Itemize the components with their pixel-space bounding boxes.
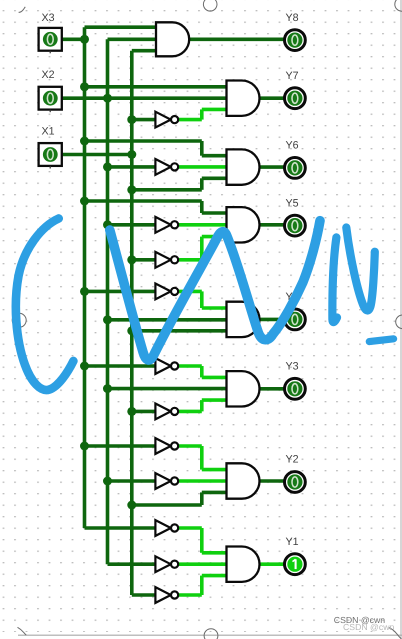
wire N1 output bbox=[178, 118, 201, 122]
wire X3 bus to inverter N8 bbox=[85, 444, 156, 448]
wire G1 output to Y1 bbox=[260, 562, 284, 566]
wire jog up to G3 bottom input bbox=[200, 400, 204, 411]
wire to G2 top input bbox=[202, 468, 227, 472]
wire X2 bus to inverter N11 bbox=[108, 562, 156, 566]
wire G8 output to Y8 bbox=[189, 37, 283, 41]
svg-text:Y8: Y8 bbox=[286, 12, 299, 24]
wire G3 output to Y3 bbox=[260, 387, 284, 391]
inverter N3 bbox=[155, 217, 178, 233]
wire X2 bus to inverter N3 bbox=[108, 223, 156, 227]
wire X3 bus to inverter N5 bbox=[85, 290, 156, 294]
output LED Y7 bbox=[285, 88, 306, 109]
wire jog down to G5 top input bbox=[200, 201, 204, 213]
output LED Y6 bbox=[285, 158, 306, 179]
wire X1 to G4 bottom input bbox=[132, 329, 227, 333]
wire jog down to G3 top input bbox=[200, 366, 204, 377]
junction X2 bus to G4 bbox=[103, 315, 112, 324]
junction X2 bus to N9 bbox=[103, 477, 112, 486]
wire X2 bus vertical bbox=[106, 39, 110, 564]
wire X3 branch for G6 bbox=[85, 139, 202, 143]
junction X1 pin / bus bbox=[127, 150, 136, 159]
wire X2 bus to inverter N9 bbox=[108, 479, 156, 483]
junction X1 bus to N7 bbox=[127, 407, 136, 416]
wire to G6 bottom input bbox=[202, 177, 227, 181]
and-gate G8 (Y8) bbox=[156, 22, 189, 56]
canvas right border bbox=[400, 0, 402, 639]
input pin X3 bbox=[39, 28, 62, 53]
wire X2 to G4 middle input bbox=[108, 318, 227, 322]
junction X1 bus to N1 bbox=[127, 115, 136, 124]
junction X2 bus to N3 bbox=[103, 220, 112, 229]
wire to G2 bottom input bbox=[202, 491, 227, 495]
wire N6 output bbox=[178, 364, 201, 368]
svg-text:Y1: Y1 bbox=[286, 536, 299, 548]
wire N11 output to G1 middle input bbox=[178, 562, 226, 566]
wire X3 pin to bus bbox=[60, 37, 85, 41]
wire X1 to G8 bottom input bbox=[132, 49, 156, 53]
junction X3 pin / bus bbox=[80, 35, 89, 44]
output LED Y4 bbox=[285, 309, 306, 330]
wire to G3 bottom input bbox=[202, 398, 227, 402]
wire jog up to G7 bottom input bbox=[200, 109, 204, 119]
wire to G5 top input bbox=[202, 211, 227, 215]
svg-text:Y2: Y2 bbox=[286, 454, 299, 466]
wire X1 bus to inverter N1 bbox=[132, 118, 156, 122]
junction X1 bus to G4 bbox=[127, 326, 136, 335]
inverter N6 bbox=[155, 358, 178, 374]
wire N4 output bbox=[178, 258, 201, 262]
and-gate G3 (Y3) bbox=[227, 371, 260, 406]
junction X3 bus to G5 bbox=[80, 197, 89, 206]
wire jog down to G2 top input bbox=[200, 446, 204, 470]
wire X1 bus to inverter N12 bbox=[132, 593, 156, 597]
output LED Y1 bbox=[285, 554, 306, 575]
junction X3 bus to N6 bbox=[80, 362, 89, 371]
selection handle right-middle bbox=[396, 315, 402, 329]
and-gate G2 (Y2) bbox=[227, 463, 260, 498]
inverter N10 bbox=[155, 520, 178, 536]
output LED Y5 bbox=[285, 215, 306, 236]
wire X1 branch for G2 bbox=[132, 503, 202, 507]
inverter N11 bbox=[155, 556, 178, 572]
junction X3 bus to G7 bbox=[80, 82, 89, 91]
wire X3 to G8 top input bbox=[85, 25, 157, 29]
wire N12 output bbox=[178, 593, 201, 597]
svg-text:X1: X1 bbox=[42, 125, 55, 137]
wire jog down to G6 top input bbox=[200, 141, 204, 156]
wire N3 output to G5 middle input bbox=[178, 223, 226, 227]
and-gate G4 (Y4) bbox=[227, 302, 260, 337]
wire X1 branch for G6 bbox=[132, 188, 202, 192]
wire N9 output to G2 middle input bbox=[178, 479, 226, 483]
input pin X1 bbox=[39, 143, 62, 168]
wire X1 bus to inverter N4 bbox=[132, 258, 156, 262]
wire jog up to G2 bottom input bbox=[200, 492, 204, 505]
wire X2 to G8 middle input bbox=[108, 37, 157, 41]
output LED Y8 bbox=[285, 30, 306, 51]
wire N10 output bbox=[178, 526, 201, 530]
wire X1 pin to bus bbox=[60, 153, 132, 157]
junction X2 pin / bus bbox=[103, 94, 112, 103]
junction X3 bus to N5 bbox=[80, 287, 89, 296]
svg-text:Y7: Y7 bbox=[286, 70, 299, 82]
blue pen stroke letter C bbox=[16, 219, 74, 390]
blue pen stroke N left bar bbox=[332, 237, 337, 322]
wire jog down to G1 top input bbox=[200, 528, 204, 553]
wire X3 branch for G5 bbox=[85, 199, 202, 203]
wire N8 output bbox=[178, 444, 201, 448]
input pin X2 bbox=[39, 87, 62, 112]
wire N5 output bbox=[178, 290, 201, 294]
svg-text:Y6: Y6 bbox=[286, 140, 299, 152]
wire to G1 top input bbox=[202, 551, 227, 555]
wire to G1 bottom input bbox=[202, 574, 227, 578]
wire X1 bus to inverter N7 bbox=[132, 410, 156, 414]
wire X2 to G3 middle input bbox=[108, 387, 227, 391]
wire G4 output to Y4 bbox=[260, 318, 284, 322]
wire G5 output to Y5 bbox=[260, 223, 284, 227]
output LED Y2 bbox=[285, 472, 306, 493]
wire X1 bus vertical bbox=[130, 51, 134, 595]
junction X1 bus to G2 bbox=[127, 501, 136, 510]
wire N7 output bbox=[178, 410, 201, 414]
blue pen stroke letter W bbox=[110, 221, 320, 360]
svg-text:CSDN @cwn: CSDN @cwn bbox=[334, 615, 385, 625]
wire X2 bus to inverter N2 bbox=[108, 165, 156, 169]
wire to G3 top input bbox=[202, 376, 227, 380]
junction X2 bus to N2 bbox=[103, 162, 112, 171]
svg-text:X2: X2 bbox=[42, 69, 55, 81]
wire N2 output to G6 middle input bbox=[178, 165, 226, 169]
wire G6 output to Y6 bbox=[260, 165, 284, 169]
blue pen stroke underscore bbox=[369, 339, 393, 342]
wire X3 bus to inverter N6 bbox=[85, 364, 156, 368]
selection handle bottom-right bbox=[389, 628, 402, 639]
wire X3 to G7 top input bbox=[85, 85, 227, 89]
wire to G4 top input bbox=[202, 306, 227, 310]
selection handle bottom-left bbox=[18, 627, 27, 635]
junction X3 bus to G6 bbox=[80, 137, 89, 146]
wire X3 bus vertical bbox=[83, 27, 87, 528]
inverter N1 bbox=[155, 112, 178, 128]
svg-text:X3: X3 bbox=[42, 12, 55, 24]
output LED Y3 bbox=[285, 378, 306, 399]
wire jog up to G1 bottom input bbox=[200, 576, 204, 595]
wire X2 pin row to gate G7 bbox=[60, 96, 227, 100]
and-gate G5 (Y5) bbox=[227, 207, 260, 242]
junction X2 bus to G3 bbox=[103, 384, 112, 393]
wire to G5 bottom input bbox=[202, 235, 227, 239]
junction X1 bus to N4 bbox=[127, 255, 136, 264]
svg-text:Y5: Y5 bbox=[286, 197, 299, 209]
and-gate G1 (Y1) bbox=[227, 547, 260, 582]
inverter N7 bbox=[155, 404, 178, 420]
and-gate G7 (Y7) bbox=[227, 81, 260, 116]
and-gate G6 (Y6) bbox=[227, 149, 260, 184]
inverter N2 bbox=[155, 159, 178, 175]
wire jog down to G4 top input bbox=[200, 291, 204, 308]
wire to G7 bottom input bbox=[202, 108, 227, 112]
selection handle bottom-center bbox=[204, 629, 218, 639]
wire G7 output to Y7 bbox=[260, 96, 284, 100]
selection handle top-center bbox=[203, 0, 217, 11]
junction X3 bus to N8 bbox=[80, 442, 89, 451]
wire jog up to G6 bottom input bbox=[200, 178, 204, 190]
wire to G6 top input bbox=[202, 154, 227, 158]
wire G2 output to Y2 bbox=[260, 479, 284, 483]
wire jog up to G5 bottom input bbox=[200, 237, 204, 260]
junction X1 bus to G6 bbox=[127, 185, 136, 194]
inverter N5 bbox=[155, 284, 178, 300]
inverter N9 bbox=[155, 473, 178, 489]
wire X3 bus to inverter N10 bbox=[85, 526, 156, 530]
selection handle left-middle bbox=[12, 313, 26, 327]
selection handle top-right bbox=[395, 0, 402, 11]
blue pen stroke N vee bbox=[346, 228, 375, 311]
inverter N8 bbox=[155, 438, 178, 454]
inverter N12 bbox=[155, 587, 178, 603]
svg-text:Y3: Y3 bbox=[286, 361, 299, 373]
selection handle top-left bbox=[19, 7, 26, 12]
inverter N4 bbox=[155, 252, 178, 268]
canvas bottom border bbox=[18, 634, 402, 636]
